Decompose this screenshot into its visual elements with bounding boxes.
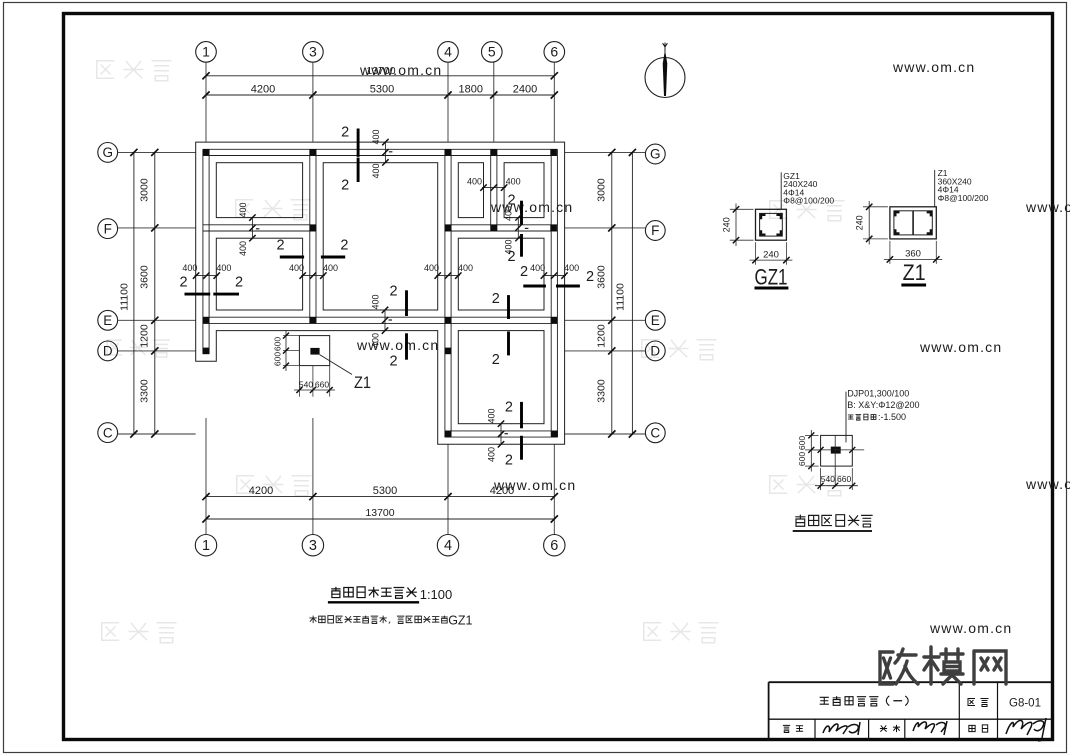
svg-text:Z1: Z1: [354, 373, 371, 392]
svg-text:400: 400: [371, 129, 381, 144]
constructional column squares GZ1: [203, 149, 210, 156]
400/400 footing dim (horizontal): [542, 275, 566, 277]
svg-text:1200: 1200: [139, 324, 151, 348]
DJ centerlines: [809, 449, 864, 451]
signature 2: [913, 721, 947, 735]
svg-text:4200: 4200: [490, 485, 514, 497]
svg-text:Z1: Z1: [903, 260, 926, 285]
watermark oumo logo outline: [642, 340, 660, 358]
right dim chain 11100: [631, 152, 633, 434]
svg-text:D: D: [103, 344, 113, 359]
bottom dim line 13700: [206, 518, 554, 520]
svg-text:GZ1: GZ1: [755, 265, 788, 290]
bottom grid bubbles 1 3 4 6: [195, 535, 216, 556]
svg-text:1: 1: [202, 44, 210, 60]
section cut 2-2 (horizontal): [523, 285, 546, 288]
DJ footing square: [821, 435, 853, 466]
400/400 footing dim (horizontal): [436, 275, 460, 277]
svg-text:G8-01: G8-01: [1009, 698, 1041, 710]
section cut 2-2 (vertical): [520, 402, 523, 428]
svg-text:11100: 11100: [119, 283, 131, 311]
logo char mo: [924, 647, 939, 684]
left dim chain segments 3000/3600/1200/3300: [154, 152, 156, 434]
grid bubble 1 top: [196, 42, 217, 63]
Z1 left dim 240: [863, 206, 888, 208]
svg-text:3000: 3000: [139, 178, 151, 202]
svg-text::-1.500: :-1.500: [878, 412, 906, 422]
svg-text:E: E: [651, 313, 660, 328]
DJ column filled: [831, 447, 841, 454]
svg-text:1800: 1800: [459, 84, 483, 96]
dim at cut A: [384, 142, 386, 162]
watermark oumo logo outline: [102, 623, 120, 641]
grid bubble 3 top: [303, 42, 324, 63]
section cut 2-2 (vertical): [520, 201, 523, 225]
dimension line 4200/5300/1800/2400: [206, 94, 554, 96]
svg-text:6: 6: [550, 538, 558, 554]
left grid bubbles G F E D C: [98, 143, 118, 163]
svg-text:660: 660: [837, 474, 851, 484]
Z1 bottom dim 360: [889, 241, 891, 264]
dim at F-right cut: [517, 218, 519, 239]
svg-text:240: 240: [721, 217, 731, 232]
signature 3: [1006, 718, 1050, 741]
svg-text:3600: 3600: [596, 265, 608, 289]
note: tu hei bu wei jun wei gou zao zhu, chu zhu ming wai jun wei GZ1: [309, 616, 316, 623]
svg-text:11100: 11100: [615, 283, 627, 311]
svg-text:GZ1: GZ1: [448, 614, 472, 628]
svg-text:D: D: [650, 344, 660, 359]
svg-text:240: 240: [763, 249, 779, 260]
DJ leader: [845, 392, 847, 443]
title block row: jie gou zong shuo ming (yi): [820, 697, 829, 704]
right dim chain segments: [611, 152, 613, 434]
svg-text:2: 2: [389, 284, 397, 300]
grid bubble 5 top: [482, 42, 503, 63]
svg-text:2: 2: [492, 291, 500, 307]
she ji: [783, 725, 790, 732]
svg-text:3000: 3000: [596, 178, 608, 202]
DJ left dim 600 600: [805, 434, 819, 436]
svg-text:400: 400: [216, 263, 231, 273]
svg-text:Φ8@100/200: Φ8@100/200: [938, 193, 989, 203]
grid extension lines top: [205, 62, 207, 141]
watermark oumo logo outline: [644, 623, 662, 641]
section cut 2-2 (vertical): [405, 290, 408, 316]
svg-text:400: 400: [503, 206, 513, 221]
svg-text:www.om.cn: www.om.cn: [919, 339, 1002, 355]
400/400 footing dim (horizontal): [301, 275, 325, 277]
svg-text:G: G: [102, 145, 113, 160]
GZ1 leader: [780, 172, 782, 209]
svg-text:400: 400: [182, 263, 197, 273]
svg-text:F: F: [651, 223, 659, 238]
svg-text:B: X&Y:Φ12@200: B: X&Y:Φ12@200: [847, 400, 919, 410]
svg-text:400: 400: [487, 447, 497, 462]
room inner footing rectangles: [216, 163, 302, 218]
svg-text:2: 2: [492, 352, 500, 368]
svg-text:F: F: [104, 221, 112, 236]
svg-text:5300: 5300: [373, 485, 397, 497]
Z1 footing vertical dim 600/600: [283, 335, 299, 337]
svg-text:DJP01,300/100: DJP01,300/100: [847, 389, 909, 399]
svg-text:2: 2: [341, 125, 349, 141]
svg-text:www.om.cn: www.om.cn: [356, 337, 439, 353]
isolated footing Z1 at grid 3/D: [299, 336, 329, 366]
svg-text:G: G: [650, 147, 661, 162]
svg-text:400: 400: [503, 239, 513, 254]
400/400 footing dim (horizontal): [195, 275, 219, 277]
xiao dui: [880, 725, 887, 731]
svg-text:400: 400: [238, 202, 248, 217]
wall edge lines: [203, 148, 558, 150]
svg-text:400: 400: [238, 241, 248, 256]
right grid row lines: [565, 151, 646, 153]
bottom dim line 4200/5300/4200: [206, 496, 554, 498]
svg-text:3: 3: [309, 44, 317, 60]
svg-text:400: 400: [323, 263, 338, 273]
svg-text:4: 4: [444, 44, 452, 60]
svg-text:Φ8@100/200: Φ8@100/200: [783, 196, 834, 206]
shen he: [969, 725, 975, 731]
section cut 2-2 (vertical): [357, 129, 360, 157]
Z1 leader line: [320, 355, 352, 375]
svg-text:360: 360: [905, 248, 921, 259]
svg-text:400: 400: [289, 263, 304, 273]
svg-text:540: 540: [821, 474, 835, 484]
svg-text:1:100: 1:100: [420, 587, 453, 602]
watermark oumo logo outline: [236, 200, 254, 218]
DJ title (du li ji chu pou mian): [795, 515, 805, 527]
signature 1: [823, 722, 860, 735]
svg-text:600: 600: [797, 436, 807, 450]
svg-text:400: 400: [506, 176, 521, 186]
watermark oumo logo outline: [107, 340, 122, 355]
svg-text:600: 600: [273, 337, 283, 351]
svg-text:4: 4: [444, 538, 452, 554]
logo char ou: [880, 652, 893, 684]
dim wall F left: [251, 218, 253, 239]
watermark oumo logo outline: [97, 61, 115, 79]
tu hao: [968, 699, 975, 706]
svg-text:4200: 4200: [251, 84, 275, 96]
svg-text:400: 400: [467, 176, 482, 186]
svg-text:240: 240: [855, 215, 865, 230]
svg-text:13700: 13700: [366, 65, 395, 77]
svg-text:400: 400: [371, 333, 381, 348]
section cut 2-2 (horizontal): [280, 256, 304, 259]
plan outer footing boundary: [196, 142, 565, 444]
svg-text:www.om.cn: www.om.cn: [1025, 476, 1070, 492]
svg-text:3300: 3300: [596, 379, 608, 403]
GZ1 stirrup: [760, 213, 783, 236]
svg-text:1: 1: [202, 538, 210, 554]
svg-text:400: 400: [487, 408, 497, 423]
Z1 column (filled): [310, 348, 319, 355]
svg-text:600: 600: [273, 352, 283, 366]
GZ1 bottom dim 240: [755, 242, 757, 265]
svg-text:E: E: [103, 313, 112, 328]
dim wall 5: [482, 187, 506, 189]
left dim chain 11100: [133, 152, 135, 434]
svg-text:2: 2: [341, 178, 349, 194]
svg-text:5: 5: [488, 44, 496, 60]
svg-text:1200: 1200: [596, 324, 608, 348]
Z1 outer rect: [890, 207, 936, 239]
svg-text:2: 2: [180, 275, 188, 291]
svg-text:13700: 13700: [365, 507, 394, 519]
svg-text:6: 6: [550, 44, 558, 60]
section cut 2-2 (vertical): [507, 295, 510, 319]
svg-text:C: C: [650, 426, 660, 441]
compass needle: [663, 50, 668, 96]
svg-text:400: 400: [564, 263, 579, 273]
svg-text:400: 400: [424, 263, 439, 273]
svg-text:2: 2: [340, 238, 348, 254]
svg-text:www.om.cn: www.om.cn: [1025, 199, 1070, 215]
logo char wang: [974, 651, 1006, 684]
svg-text:400: 400: [458, 263, 473, 273]
svg-text:2: 2: [276, 238, 284, 254]
svg-text:400: 400: [530, 263, 545, 273]
svg-text:2: 2: [235, 275, 243, 291]
svg-text:3: 3: [309, 538, 317, 554]
dim at E cut: [384, 310, 386, 331]
right grid bubbles G F E D C: [645, 144, 665, 164]
svg-text:2400: 2400: [513, 84, 537, 96]
svg-text:2: 2: [505, 400, 513, 416]
dimension line 13700 top: [206, 75, 554, 77]
svg-text:C: C: [103, 425, 113, 440]
title: ji chu ping mian bu zhi tu 1:100: [331, 587, 340, 598]
svg-text:660: 660: [315, 379, 329, 389]
svg-text:5300: 5300: [370, 84, 394, 96]
svg-text:2: 2: [586, 269, 594, 285]
watermark oumo logo outline: [770, 201, 788, 219]
svg-text:2: 2: [520, 264, 528, 280]
bottom extension lines: [205, 418, 207, 534]
svg-text:2: 2: [505, 453, 513, 469]
GZ1 left dim 240: [730, 208, 754, 210]
watermark oumo logo outline: [237, 476, 255, 494]
Z1 leader: [934, 170, 936, 207]
grid bubble 6 top: [544, 42, 565, 63]
svg-text:400: 400: [371, 163, 381, 178]
svg-text:3600: 3600: [139, 265, 151, 289]
dim at C cut: [500, 424, 502, 445]
left grid row lines: [118, 151, 196, 153]
svg-text:600: 600: [797, 452, 807, 466]
svg-text:2: 2: [389, 354, 397, 370]
svg-text:400: 400: [371, 294, 381, 309]
svg-text:www.om.cn: www.om.cn: [929, 620, 1012, 636]
svg-text:www.om.cn: www.om.cn: [892, 59, 975, 75]
section cut 2-2 (horizontal): [185, 293, 211, 296]
grid bubble 4 top: [438, 42, 459, 63]
GZ1 outer square: [756, 209, 787, 240]
svg-text:3300: 3300: [139, 379, 151, 403]
watermark oumo logo outline: [770, 476, 788, 494]
Z1 stirrup: [894, 211, 932, 235]
Z1 middle tie: [912, 211, 914, 235]
svg-text:4200: 4200: [249, 485, 273, 497]
